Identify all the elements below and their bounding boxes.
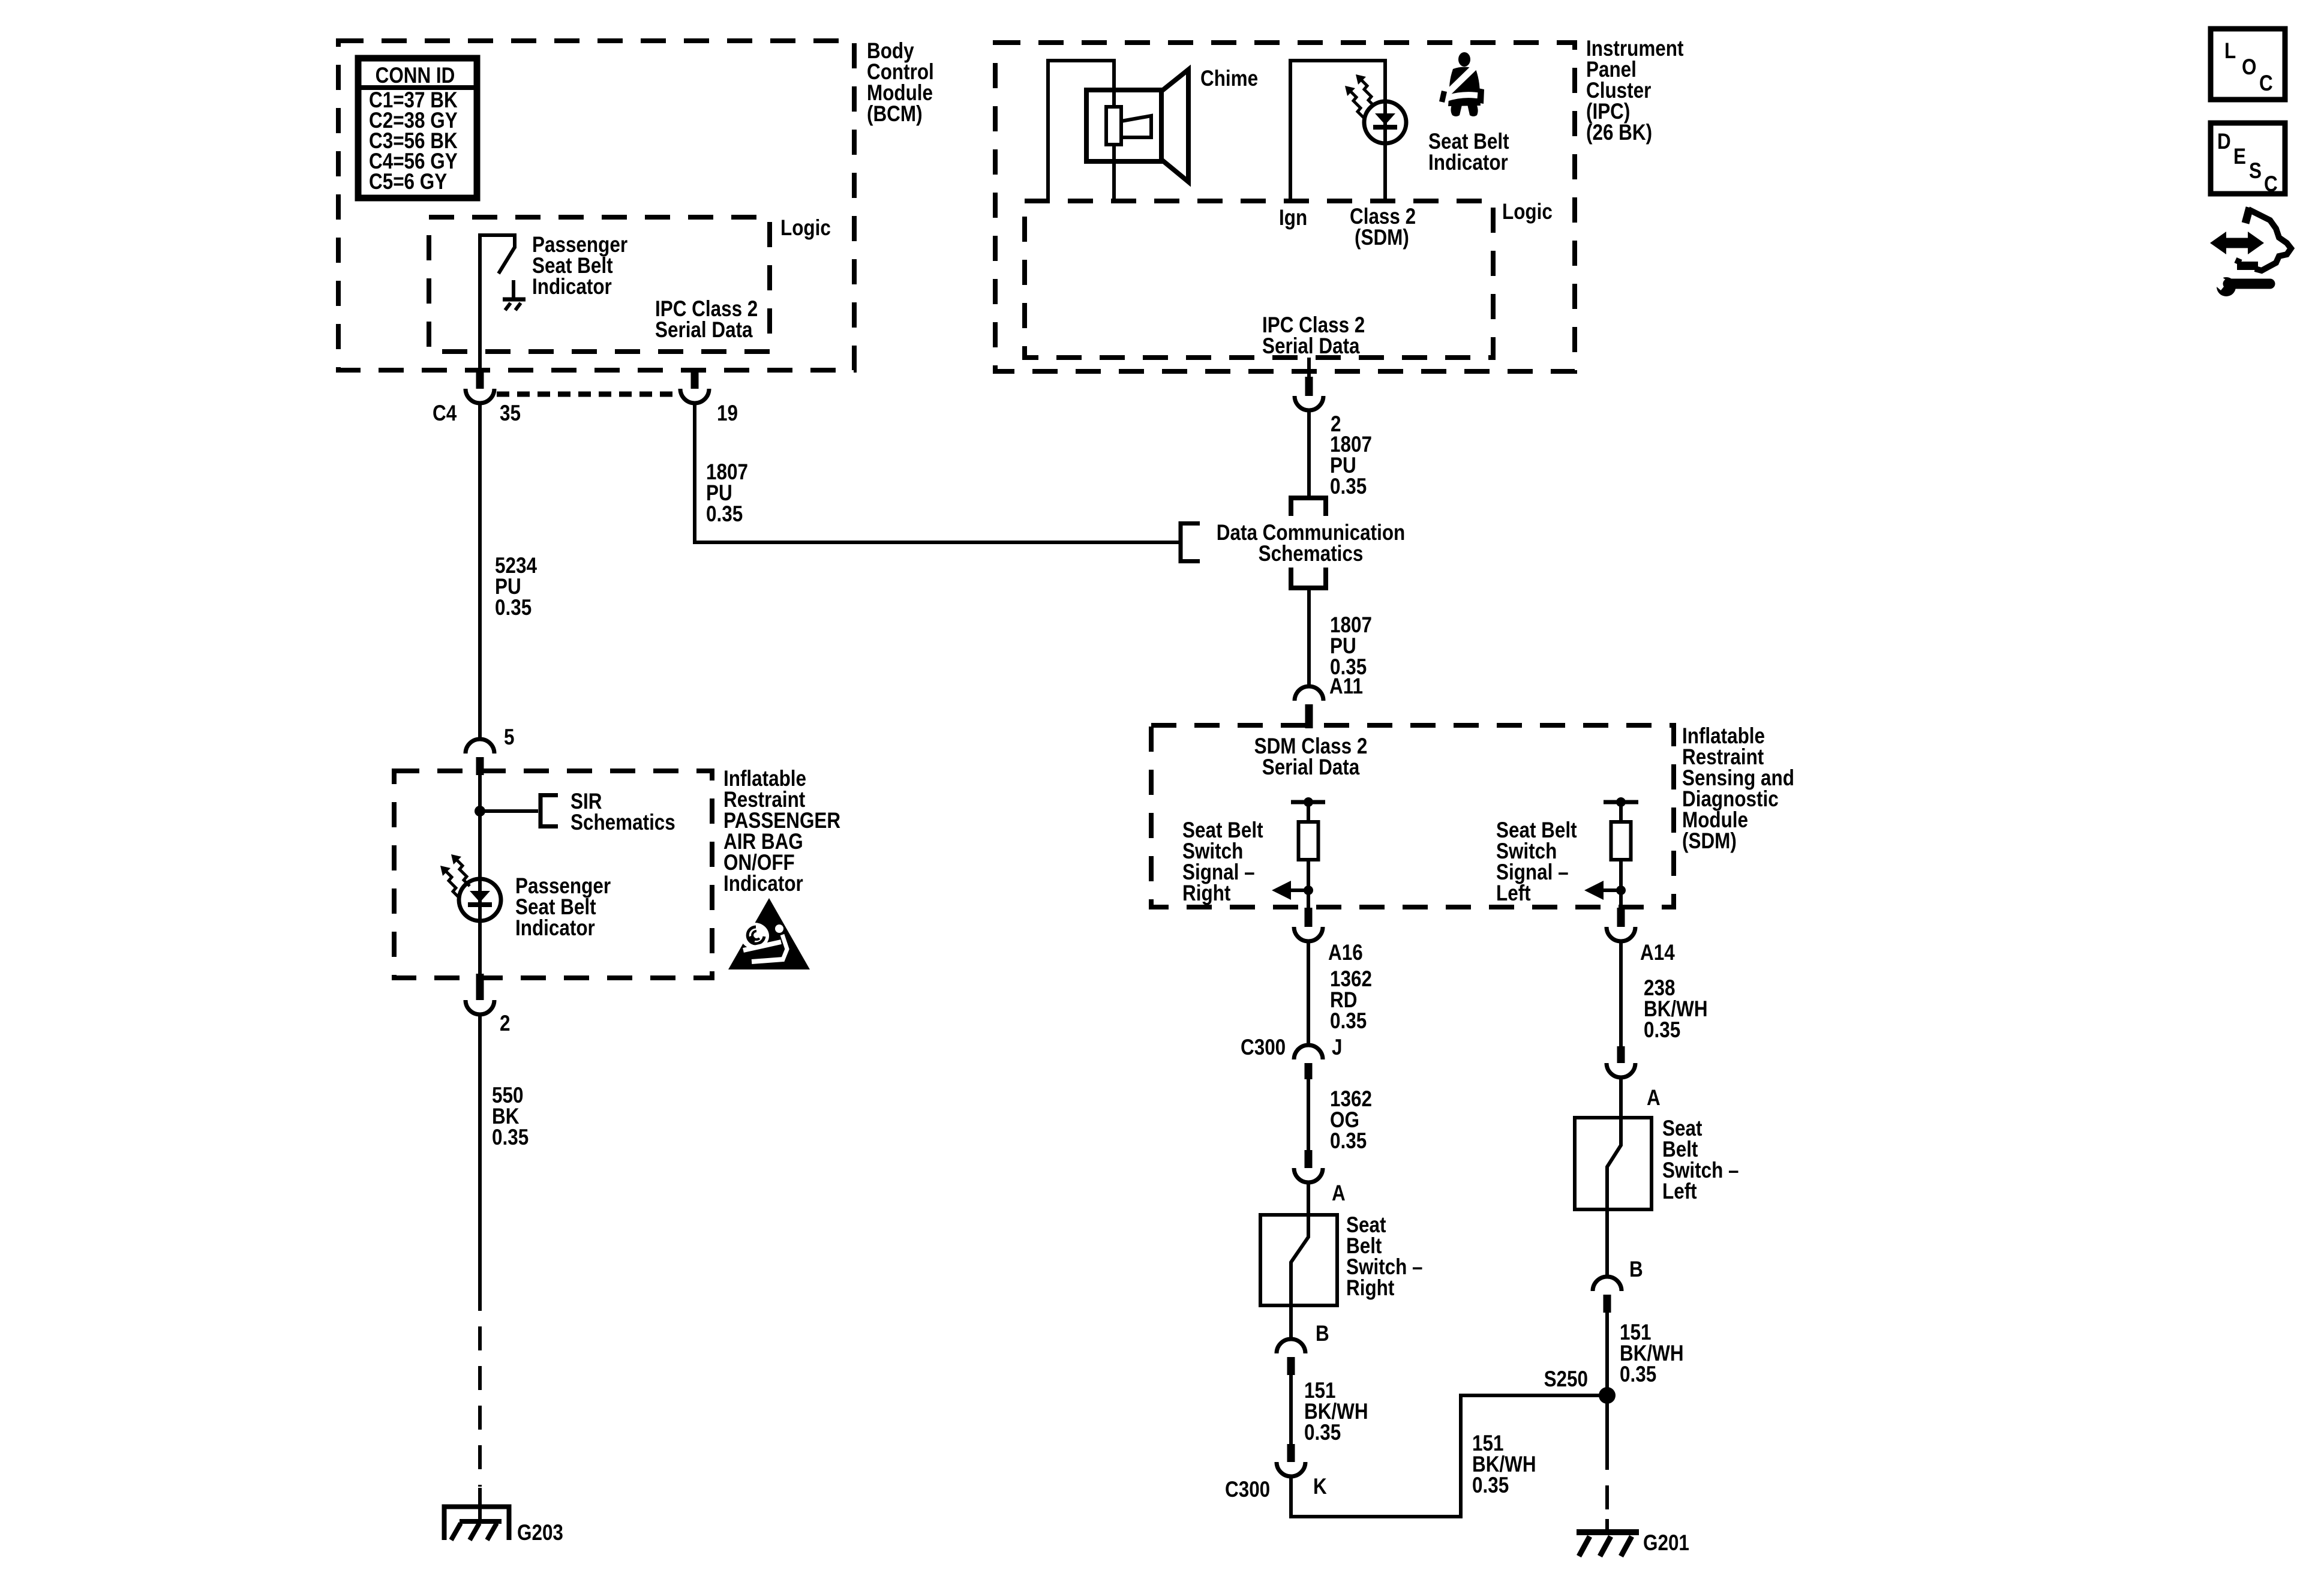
svg-text:Schematics: Schematics [1259, 542, 1364, 566]
svg-text:0.35: 0.35 [492, 1125, 529, 1150]
wire: chime branch [1048, 61, 1114, 201]
wire: circuit 151 from B to S250 [1605, 1313, 1609, 1395]
off-page reference bracket: Data Communication Schematics (top) [1291, 498, 1326, 516]
label: Inflatable Restraint PASSENGER AIR BAG ON/OFF Indicator [723, 767, 840, 896]
svg-text:19: 19 [717, 401, 738, 426]
svg-text:(BCM): (BCM) [867, 102, 923, 127]
svg-text:Logic: Logic [780, 216, 831, 241]
svg-text:Chime: Chime [1200, 67, 1258, 91]
box: IPC Logic dashed inner box [1025, 201, 1493, 358]
wire: circuit 151 from B to C300 K [1289, 1375, 1293, 1444]
label: Passenger Seat Belt Indicator (BCM) [532, 233, 627, 299]
connector terminal A (right switch) [1294, 1150, 1323, 1182]
LED: Passenger Seat Belt Indicator lamp [459, 879, 501, 921]
wire label: 1807 PU 0.35 (to SDM) [1330, 613, 1372, 680]
wire: resistor to arrow node (left) [1619, 860, 1623, 908]
svg-text:Indicator: Indicator [723, 872, 803, 896]
wire label: 1362 OG 0.35 [1330, 1087, 1372, 1154]
svg-text:(SDM): (SDM) [1682, 829, 1737, 854]
svg-text:L: L [2224, 39, 2236, 64]
chime speaker icon [1086, 70, 1188, 182]
svg-text:C300: C300 [1241, 1035, 1286, 1060]
svg-text:0.35: 0.35 [1304, 1421, 1341, 1445]
module box: Body Control Module (BCM) dashed outline [338, 41, 854, 370]
wire label: 1362 RD 0.35 [1330, 967, 1372, 1034]
svg-text:S: S [2249, 159, 2262, 184]
svg-text:2: 2 [500, 1011, 510, 1036]
connector C300 terminal K [1277, 1444, 1305, 1476]
wire: circuit 1807 continues down to SDM A11 [1307, 588, 1311, 686]
svg-text:G201: G201 [1643, 1531, 1689, 1556]
svg-text:B: B [1629, 1257, 1643, 1282]
splice node S250 [1599, 1387, 1616, 1404]
wire: junction to SIR Schematics bracket [480, 809, 538, 813]
wire: circuit 5234 from C4-35 down to connector 5 [478, 403, 482, 739]
switch: Seat Belt Switch - Right [1260, 1215, 1337, 1305]
wire: circuit 151 dashed to G201 [1605, 1446, 1609, 1519]
wire: circuit 550 dashed part to G203 [478, 1287, 482, 1487]
ground G201 [1577, 1519, 1639, 1556]
svg-text:B: B [1316, 1322, 1329, 1346]
wire label: 151 BK/WH 0.35 (jog) [1472, 1431, 1536, 1498]
label: Inflatable Restraint Sensing and Diagnostic Module (SDM) [1682, 724, 1794, 854]
label: Seat Belt Indicator (IPC) [1428, 130, 1509, 175]
svg-text:E: E [2233, 145, 2246, 169]
wire: circuit 1807 from IPC pin 2 down [1307, 410, 1311, 496]
svg-text:A14: A14 [1640, 941, 1675, 965]
label: Seat Belt Switch - Left [1662, 1116, 1739, 1204]
resistor: seat belt switch pull-up (right) [1299, 822, 1319, 860]
node + signal arrow: Seat Belt Switch Signal - Right [1272, 881, 1313, 900]
connector A16 (SDM bottom, right branch) [1294, 908, 1323, 941]
connector 2 (indicator box bottom) [466, 974, 494, 1014]
connector C300 terminal J [1294, 1045, 1323, 1079]
svg-text:Right: Right [1346, 1276, 1395, 1301]
connector A11 (into SDM) [1295, 686, 1323, 728]
off-page reference bracket: Data Communication Schematics (left entry) [1181, 521, 1200, 563]
label: Passenger Seat Belt Indicator (lamp) [515, 874, 611, 941]
svg-text:Indicator: Indicator [1428, 151, 1508, 175]
wire: node to resistor (left) [1619, 802, 1623, 822]
pin label: Class 2 (SDM) [1350, 205, 1416, 250]
svg-text:0.35: 0.35 [1330, 1009, 1367, 1034]
ground G203 [445, 1488, 509, 1540]
wire: circuit 238 from A14 down [1619, 941, 1623, 1046]
svg-text:Serial Data: Serial Data [655, 318, 753, 343]
icon box: LOC [2211, 29, 2285, 100]
svg-text:C300: C300 [1225, 1478, 1270, 1502]
svg-text:Right: Right [1182, 881, 1231, 906]
wire: circuit 1807 from pin 19 down and right to Data Communication Schematics [695, 403, 1179, 542]
svg-text:0.35: 0.35 [706, 502, 743, 527]
label: IPC Class 2 Serial Data (BCM) [655, 297, 758, 343]
icon: pointer arrow with wrench [2210, 208, 2291, 296]
svg-text:Ign: Ign [1279, 206, 1307, 230]
box: BCM Logic dashed inner box [429, 217, 770, 352]
icon: air bag warning triangle [728, 898, 810, 969]
svg-text:O: O [2242, 55, 2256, 80]
svg-text:35: 35 [500, 401, 521, 426]
svg-text:A: A [1647, 1086, 1661, 1110]
connector A14 (SDM bottom, left branch) [1607, 908, 1635, 941]
wire label: 151 BK/WH 0.35 (left) [1620, 1320, 1684, 1387]
wire: circuit 151 solid below S250 [1605, 1395, 1609, 1446]
label: Data Communication Schematics [1217, 521, 1405, 566]
wire label: 238 BK/WH 0.35 [1644, 976, 1708, 1043]
svg-text:C: C [2264, 172, 2278, 197]
svg-text:D: D [2217, 130, 2231, 154]
wire label: 550 BK 0.35 [492, 1083, 529, 1150]
svg-text:Indicator: Indicator [532, 275, 612, 299]
wire: seat belt indicator branch (Ign / Class 2) [1290, 61, 1385, 201]
svg-text:G203: G203 [517, 1521, 563, 1545]
connector C4 pin 35 (BCM bottom) [466, 370, 494, 403]
wire: circuit 1362 RD from A16 to C300 [1307, 941, 1310, 1045]
wire label: 5234 PU 0.35 [495, 554, 537, 620]
label: IPC Class 2 Serial Data (IPC logic) [1262, 313, 1365, 359]
resistor: seat belt switch pull-up (left) [1611, 822, 1631, 860]
LED arrows (emitting) [440, 854, 470, 897]
svg-text:(26 BK): (26 BK) [1586, 121, 1652, 145]
svg-text:Schematics: Schematics [571, 810, 675, 835]
svg-text:Left: Left [1662, 1179, 1697, 1204]
svg-text:A11: A11 [1329, 674, 1363, 699]
wire: circuit 151 from C300 K to S250 [1291, 1395, 1602, 1517]
internal node bar (right branch) [1291, 797, 1325, 807]
svg-text:Logic: Logic [1502, 200, 1553, 224]
label: Body Control Module (BCM) [867, 39, 934, 127]
wire label: 1807 PU 0.35 (IPC pin 2) [1330, 433, 1372, 499]
LED arrows (emitting, IPC) [1345, 74, 1374, 118]
label: SDM Class 2 Serial Data [1254, 734, 1368, 780]
icon: seat belt person pictograph [1439, 52, 1484, 116]
label: SIR Schematics [571, 789, 675, 835]
svg-text:Serial Data: Serial Data [1262, 334, 1360, 359]
svg-text:0.35: 0.35 [1330, 475, 1367, 499]
table: CONN ID [358, 58, 477, 198]
switch: Seat Belt Switch - Left [1575, 1118, 1652, 1209]
svg-text:Left: Left [1496, 881, 1531, 906]
wire: into right switch [1307, 1182, 1310, 1217]
wire: into left switch [1619, 1077, 1623, 1119]
svg-text:C5=6 GY: C5=6 GY [369, 170, 447, 194]
wire: circuit 1362 OG from C300 to switch [1307, 1079, 1310, 1151]
wire: right switch to terminal B [1289, 1305, 1293, 1339]
svg-text:K: K [1313, 1475, 1327, 1499]
connector pin 2 (IPC bottom) [1295, 358, 1323, 410]
svg-text:0.35: 0.35 [1644, 1018, 1680, 1043]
wire label: 151 BK/WH 0.35 (right) [1304, 1379, 1368, 1445]
driver/switch symbol: Passenger Seat Belt Indicator (BCM logic) [478, 233, 526, 372]
svg-text:0.35: 0.35 [1330, 1129, 1367, 1154]
label: Seat Belt Switch Signal - Left [1496, 818, 1577, 906]
internal node bar (left branch) [1604, 797, 1638, 807]
wire: left switch to terminal B [1605, 1209, 1609, 1277]
svg-text:A: A [1332, 1181, 1346, 1206]
component box: Passenger Seat Belt Indicator dashed outline [394, 771, 712, 978]
svg-text:S250: S250 [1544, 1367, 1588, 1392]
svg-text:0.35: 0.35 [495, 596, 532, 620]
svg-text:0.35: 0.35 [1620, 1362, 1656, 1387]
svg-text:A16: A16 [1328, 941, 1363, 965]
module box: Instrument Panel Cluster dashed outline [995, 43, 1575, 371]
dotted harness line between pin 35 and pin 19 [497, 392, 680, 397]
connector 5 (into indicator box) [466, 739, 494, 775]
LED: IPC Seat Belt Indicator lamp [1364, 101, 1406, 143]
wire: resistor to arrow node (right) [1307, 860, 1310, 908]
label: Instrument Panel Cluster (IPC) (26 BK) [1586, 37, 1684, 145]
connector terminal B (left switch) [1593, 1277, 1622, 1313]
off-page reference bracket: SIR Schematics [541, 793, 558, 828]
svg-text:5: 5 [504, 725, 514, 750]
svg-text:Indicator: Indicator [515, 916, 595, 941]
svg-text:CONN ID: CONN ID [376, 64, 455, 88]
connector terminal B (right switch) [1277, 1339, 1305, 1375]
wire: node to resistor (right) [1307, 802, 1310, 822]
svg-text:C4: C4 [433, 401, 457, 426]
svg-text:J: J [1332, 1035, 1342, 1060]
wire label: 1807 PU 0.35 (pin 19) [706, 460, 748, 527]
connector terminal A (left switch) [1607, 1046, 1635, 1077]
off-page reference bracket: Data Communication Schematics (bottom) [1291, 568, 1326, 588]
svg-text:0.35: 0.35 [1472, 1473, 1509, 1498]
svg-text:Serial Data: Serial Data [1262, 755, 1360, 780]
label: Seat Belt Switch - Right [1346, 1213, 1423, 1301]
node: junction dot to SIR reference [475, 806, 485, 816]
wire: circuit 550 solid part [478, 1014, 482, 1287]
svg-text:(SDM): (SDM) [1355, 226, 1409, 250]
module box: SDM dashed outline [1151, 725, 1674, 907]
svg-text:C: C [2259, 71, 2273, 96]
label: Seat Belt Switch Signal - Right [1182, 818, 1263, 906]
wire: vertical through indicator box [478, 775, 482, 978]
connector pin 19 (BCM bottom) [680, 370, 709, 403]
icon box: DESC [2211, 123, 2285, 197]
node + signal arrow: Seat Belt Switch Signal - Left [1584, 881, 1626, 900]
